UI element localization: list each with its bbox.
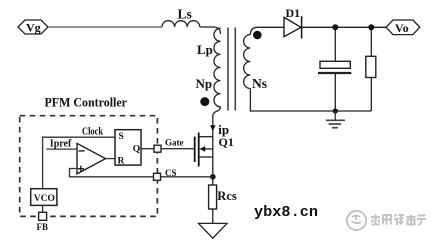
svg-text:Clock: Clock <box>82 127 103 138</box>
op-amp U1 comparator <box>77 143 106 174</box>
wire output cap branch <box>334 27 336 61</box>
ground (signal) under Rcs <box>199 223 228 238</box>
vco U2 <box>31 189 57 206</box>
wire Vg to Ls <box>48 26 162 28</box>
diode D1 <box>284 17 301 36</box>
wire secondary top to diode <box>250 27 284 34</box>
resistor R load <box>366 56 376 77</box>
junction dot at cap node <box>332 24 338 30</box>
transformer secondary winding Ns <box>244 35 251 89</box>
pin pad FB <box>39 212 47 220</box>
wire secondary bottom to ground rail <box>250 89 371 112</box>
wire Ipref to comparator <box>46 148 77 150</box>
svg-text:Ns: Ns <box>252 76 267 91</box>
wire load branch <box>370 27 372 56</box>
svg-text:PFM Controller: PFM Controller <box>45 94 128 109</box>
wire comparator output to R <box>106 158 116 160</box>
transistor Q1 MOSFET <box>194 137 196 163</box>
svg-text:D1: D1 <box>286 6 301 20</box>
transformer primary winding Lp/Np <box>214 28 221 107</box>
wire clock VCO to S <box>43 137 115 189</box>
svg-text:Ls: Ls <box>178 6 192 21</box>
svg-text:FB: FB <box>37 222 49 232</box>
resistor Rcs <box>209 185 217 209</box>
svg-text:Vo: Vo <box>395 21 409 35</box>
node Vo flag <box>386 20 420 35</box>
svg-text:Gate: Gate <box>165 137 184 147</box>
svg-text:Rcs: Rcs <box>217 189 237 203</box>
junction dot ground rail <box>333 108 338 113</box>
wire VCO to FB pad <box>42 205 44 212</box>
pin pad Gate <box>154 145 161 152</box>
svg-text:CS: CS <box>165 168 177 178</box>
node Vg flag <box>18 20 48 34</box>
wire Q to gate of Q1 <box>141 148 195 150</box>
wire Ls to transformer primary <box>200 27 221 34</box>
svg-text:Ipref: Ipref <box>50 138 72 149</box>
svg-text:Vg: Vg <box>26 21 41 35</box>
svg-text:ybx8.cn: ybx8.cn <box>254 204 318 221</box>
flip-flop U3 SR latch <box>115 130 141 165</box>
inductor Ls <box>162 21 200 27</box>
svg-text:Lp: Lp <box>197 42 213 57</box>
wire primary bottom to Q1 drain with ip arrow <box>213 107 221 137</box>
svg-text:R: R <box>118 156 125 166</box>
svg-text:Q: Q <box>133 144 140 154</box>
wire comparator plus input to CS <box>70 169 213 177</box>
pin pad CS <box>154 173 161 180</box>
capacitor C1 (output) <box>320 61 350 68</box>
polarity dot primary <box>200 97 209 106</box>
svg-text:VCO: VCO <box>34 194 55 204</box>
transformer core <box>227 28 229 111</box>
logo text 芯朋微电子 <box>371 215 426 226</box>
ground (earth) output <box>334 111 336 120</box>
svg-text:Q1: Q1 <box>219 135 234 149</box>
junction dot at load node <box>368 24 374 30</box>
wire CS junction to Rcs <box>210 174 216 180</box>
svg-text:Np: Np <box>196 76 213 91</box>
wire diode to Vo <box>302 26 386 28</box>
svg-text:S: S <box>119 132 124 142</box>
polarity dot secondary <box>253 31 262 40</box>
PFM controller dashed box <box>20 116 158 217</box>
logo icon circle <box>347 211 366 230</box>
